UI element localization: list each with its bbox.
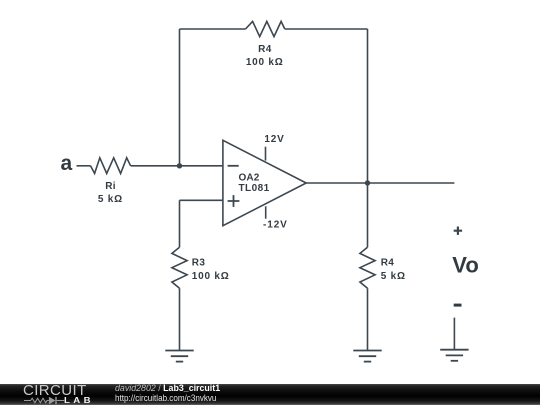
wire: R4 5k to ground	[367, 288, 369, 350]
ground (Vo reference)	[440, 350, 468, 361]
svg-text:5 kΩ: 5 kΩ	[381, 271, 406, 282]
resistor Ri	[91, 158, 131, 174]
pin: negative supply -12V	[265, 206, 267, 218]
CircuitLab logo wordmark	[23, 383, 87, 398]
node: junction of Ri, feedback, inverting input	[177, 163, 182, 168]
footer url line	[115, 393, 216, 404]
label: - polarity of Vo	[454, 304, 462, 307]
wire: Vo minus stub	[453, 318, 455, 350]
svg-text:100 kΩ: 100 kΩ	[192, 271, 230, 282]
footer credit line	[115, 383, 220, 394]
svg-text:5 kΩ: 5 kΩ	[98, 194, 123, 205]
svg-text:-12V: -12V	[263, 220, 288, 231]
ground (R3 leg)	[165, 351, 193, 362]
svg-text:R3: R3	[192, 258, 206, 269]
svg-text:TL081: TL081	[239, 183, 270, 194]
wire: left vertical feedback riser	[179, 29, 181, 166]
svg-text:12V: 12V	[264, 134, 284, 145]
op-amp OA2 minus input marker	[228, 165, 239, 167]
wire: top horizontal to R4	[180, 28, 246, 30]
wire: Ri to op-amp inverting input	[131, 165, 223, 167]
wire: input lead from node a	[77, 165, 91, 167]
svg-text:R4: R4	[381, 258, 395, 269]
resistor R3	[172, 247, 187, 288]
label: + polarity of Vo	[454, 227, 462, 235]
op-amp OA2 plus input marker	[228, 195, 240, 207]
wire: plus input vertical down to R3	[179, 200, 181, 247]
svg-text:100 kΩ: 100 kΩ	[246, 57, 284, 68]
wire: plus input horizontal	[180, 199, 223, 201]
wire: right vertical from top to R4 5k	[367, 29, 369, 247]
svg-text:a: a	[61, 152, 73, 175]
wire: R3 to ground	[179, 288, 181, 350]
ground (R4 5k leg)	[353, 351, 381, 362]
resistor R4 (feedback 100k)	[246, 21, 285, 36]
pin: positive supply 12V	[265, 147, 267, 161]
resistor R4 (5k vertical)	[360, 247, 375, 288]
svg-text:OA2: OA2	[239, 172, 260, 183]
node: output junction	[365, 180, 370, 185]
svg-text:R4: R4	[258, 44, 272, 55]
CircuitLab logo resistor-diode glyph	[22, 395, 82, 407]
wire: op-amp output	[306, 182, 454, 184]
svg-text:Ri: Ri	[105, 181, 116, 192]
wire: R4 to right vertical	[285, 28, 368, 30]
op-amp OA2 triangle	[223, 140, 306, 225]
footer bar	[0, 384, 540, 405]
svg-text:Vo: Vo	[452, 252, 478, 277]
